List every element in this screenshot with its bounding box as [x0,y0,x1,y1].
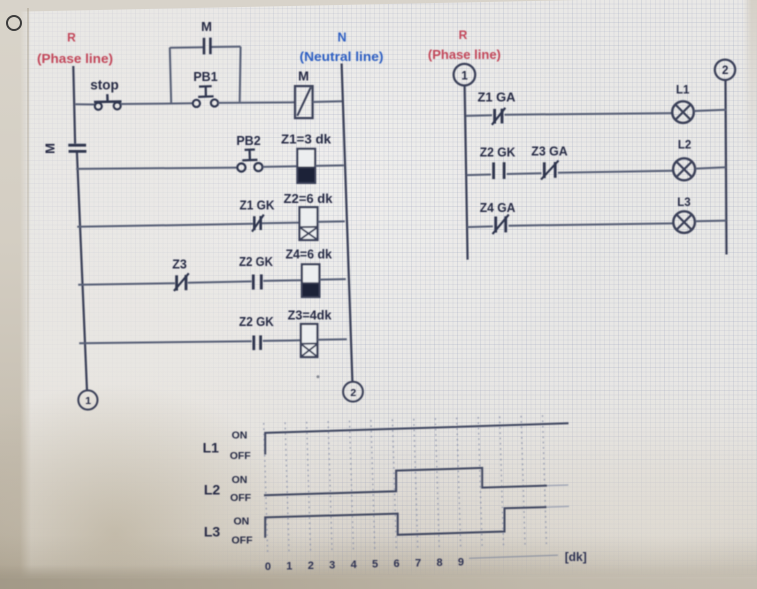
waveform L2 faint tail [547,484,568,487]
node 2 (left ladder) [343,382,363,402]
svg-text:M: M [201,19,212,34]
timer coil Z4 on-delay [302,264,320,297]
wire rung2 b [263,165,298,168]
left rail right-ladder [465,86,468,260]
svg-text:2: 2 [722,65,728,77]
svg-text:N: N [337,31,346,45]
net label N (neutral) [300,31,384,65]
pushbutton PB1 NO [193,86,218,107]
NC contact Z4 GA [493,215,509,235]
svg-text:6: 6 [394,558,400,570]
wire lamp-rung3 b [509,223,673,225]
svg-text:L2: L2 [204,482,221,498]
wire rung4 a [78,283,175,285]
NO contact Z2 GK rung5 [254,335,261,350]
timer coil Z3 crossed [301,324,318,357]
svg-text:Z4 GA: Z4 GA [480,201,516,215]
NC contact Z3 [174,273,189,291]
wire lamp-rung3 a [467,225,493,228]
svg-text:1: 1 [286,561,292,573]
stop pushbutton NC [94,94,122,110]
svg-text:Z4=6 dk: Z4=6 dk [285,248,332,262]
svg-text:2: 2 [350,387,356,399]
NC timed contact Z1 GK [252,215,264,232]
NO contact Z2 GK lamps [494,162,505,179]
svg-text:Z3: Z3 [172,258,187,272]
wire lamp-rung2 b [507,172,542,175]
svg-text:8: 8 [436,557,442,569]
wire lamp-rung2 a [467,174,491,177]
node 1 (left ladder) [78,390,97,409]
wire rung1 d [313,100,343,103]
wire lamp-rung3 c [695,220,726,223]
svg-text:5: 5 [372,559,378,571]
parallel branch wires (seal-in) [170,47,241,104]
timer coil Z2 crossed [300,207,318,240]
right rail right-ladder [726,80,727,254]
wire rung5 a [79,341,252,343]
svg-text:9: 9 [458,557,464,569]
svg-text:OFF: OFF [232,535,254,547]
waveform L3 faint tail [547,505,570,508]
svg-text:PB1: PB1 [193,70,217,84]
net label R (phase) left [37,31,113,67]
net label R (phase) right [428,28,501,62]
wire lamp-rung2 d [695,167,726,168]
right rail N (neutral line) [342,64,353,382]
wire rung4 b [188,281,252,282]
svg-text:1: 1 [461,70,468,82]
wire rung4 d [320,278,346,281]
svg-text:4: 4 [351,559,358,571]
svg-text:Z2 GK: Z2 GK [239,255,273,269]
wire rung3 a [77,224,253,227]
svg-text:(Phase line): (Phase line) [37,51,113,66]
waveform L2 [264,468,547,495]
svg-text:3: 3 [329,560,335,572]
contact M on left rail [43,143,87,154]
wire rung1 c [218,101,295,104]
svg-text:OFF: OFF [230,492,252,504]
svg-text:M: M [298,68,309,83]
svg-text:R: R [67,31,76,45]
wire rung5 c [318,338,347,341]
waveform L3 [265,507,546,538]
svg-text:Z1 GA: Z1 GA [478,90,516,104]
svg-text:PB2: PB2 [236,134,260,148]
timer coil Z1 on-delay [297,149,315,183]
NC contact Z3 GA [541,161,559,180]
wire rung5 b [263,339,301,342]
svg-text:Z2 GK: Z2 GK [239,315,274,329]
svg-text:R: R [459,28,468,42]
node 2 (right ladder) [715,60,735,80]
svg-text:7: 7 [415,558,421,570]
wire rung1 b [121,102,193,105]
svg-text:Z3 GA: Z3 GA [531,145,567,159]
NC timed contact Z1 GA [492,108,505,125]
lamp L2 [673,158,695,180]
svg-text:L3: L3 [677,197,690,209]
lamp L3 [673,211,695,233]
wire rung3 c [318,220,345,223]
svg-text:ON: ON [232,430,248,442]
svg-text:M: M [43,143,58,154]
svg-text:(Phase line): (Phase line) [428,47,501,62]
svg-text:L1: L1 [203,440,220,456]
wire rung1 a [76,103,95,105]
svg-text:Z1=3 dk: Z1=3 dk [281,133,331,147]
waveform L1 [265,423,568,454]
svg-text:ON: ON [234,516,250,528]
contact M (seal-in branch) [204,38,210,55]
svg-text:2: 2 [308,560,314,572]
wire lamp-rung1 a [466,114,492,117]
svg-text:L3: L3 [204,524,221,540]
svg-text:(Neutral line): (Neutral line) [300,49,384,64]
left rail R (phase line) [73,66,87,391]
svg-text:[dk]: [dk] [565,550,587,564]
timing grid dotted lines [264,415,547,555]
svg-text:Z2 GK: Z2 GK [480,146,516,160]
svg-text:L2: L2 [678,140,691,152]
wire rung4 c [263,279,302,282]
svg-text:Z3=4dk: Z3=4dk [288,309,332,323]
time axis numbers 0-9 [265,557,464,574]
wire rung2 a [76,168,237,169]
svg-text:0: 0 [265,561,271,573]
NO contact Z2 GK rung4 [253,274,261,289]
axis leader line [469,555,558,558]
stray ink speck [317,375,320,378]
svg-text:Z1 GK: Z1 GK [240,198,275,212]
wire lamp-rung2 c [558,171,673,173]
wire rung3 b [262,222,300,225]
svg-text:L1: L1 [676,85,690,97]
svg-text:OFF: OFF [230,450,252,462]
relay coil M [295,86,313,118]
node 1 (right ladder) [454,64,476,86]
svg-text:1: 1 [85,395,91,407]
wire lamp-rung1 c [694,110,726,111]
svg-text:stop: stop [90,78,119,93]
svg-text:Z2=6 dk: Z2=6 dk [284,192,333,206]
wire rung2 c [315,164,344,167]
wire lamp-rung1 b [505,113,673,115]
svg-text:ON: ON [232,474,248,486]
pushbutton PB2 NO [237,150,262,172]
lamp L1 [672,101,694,123]
